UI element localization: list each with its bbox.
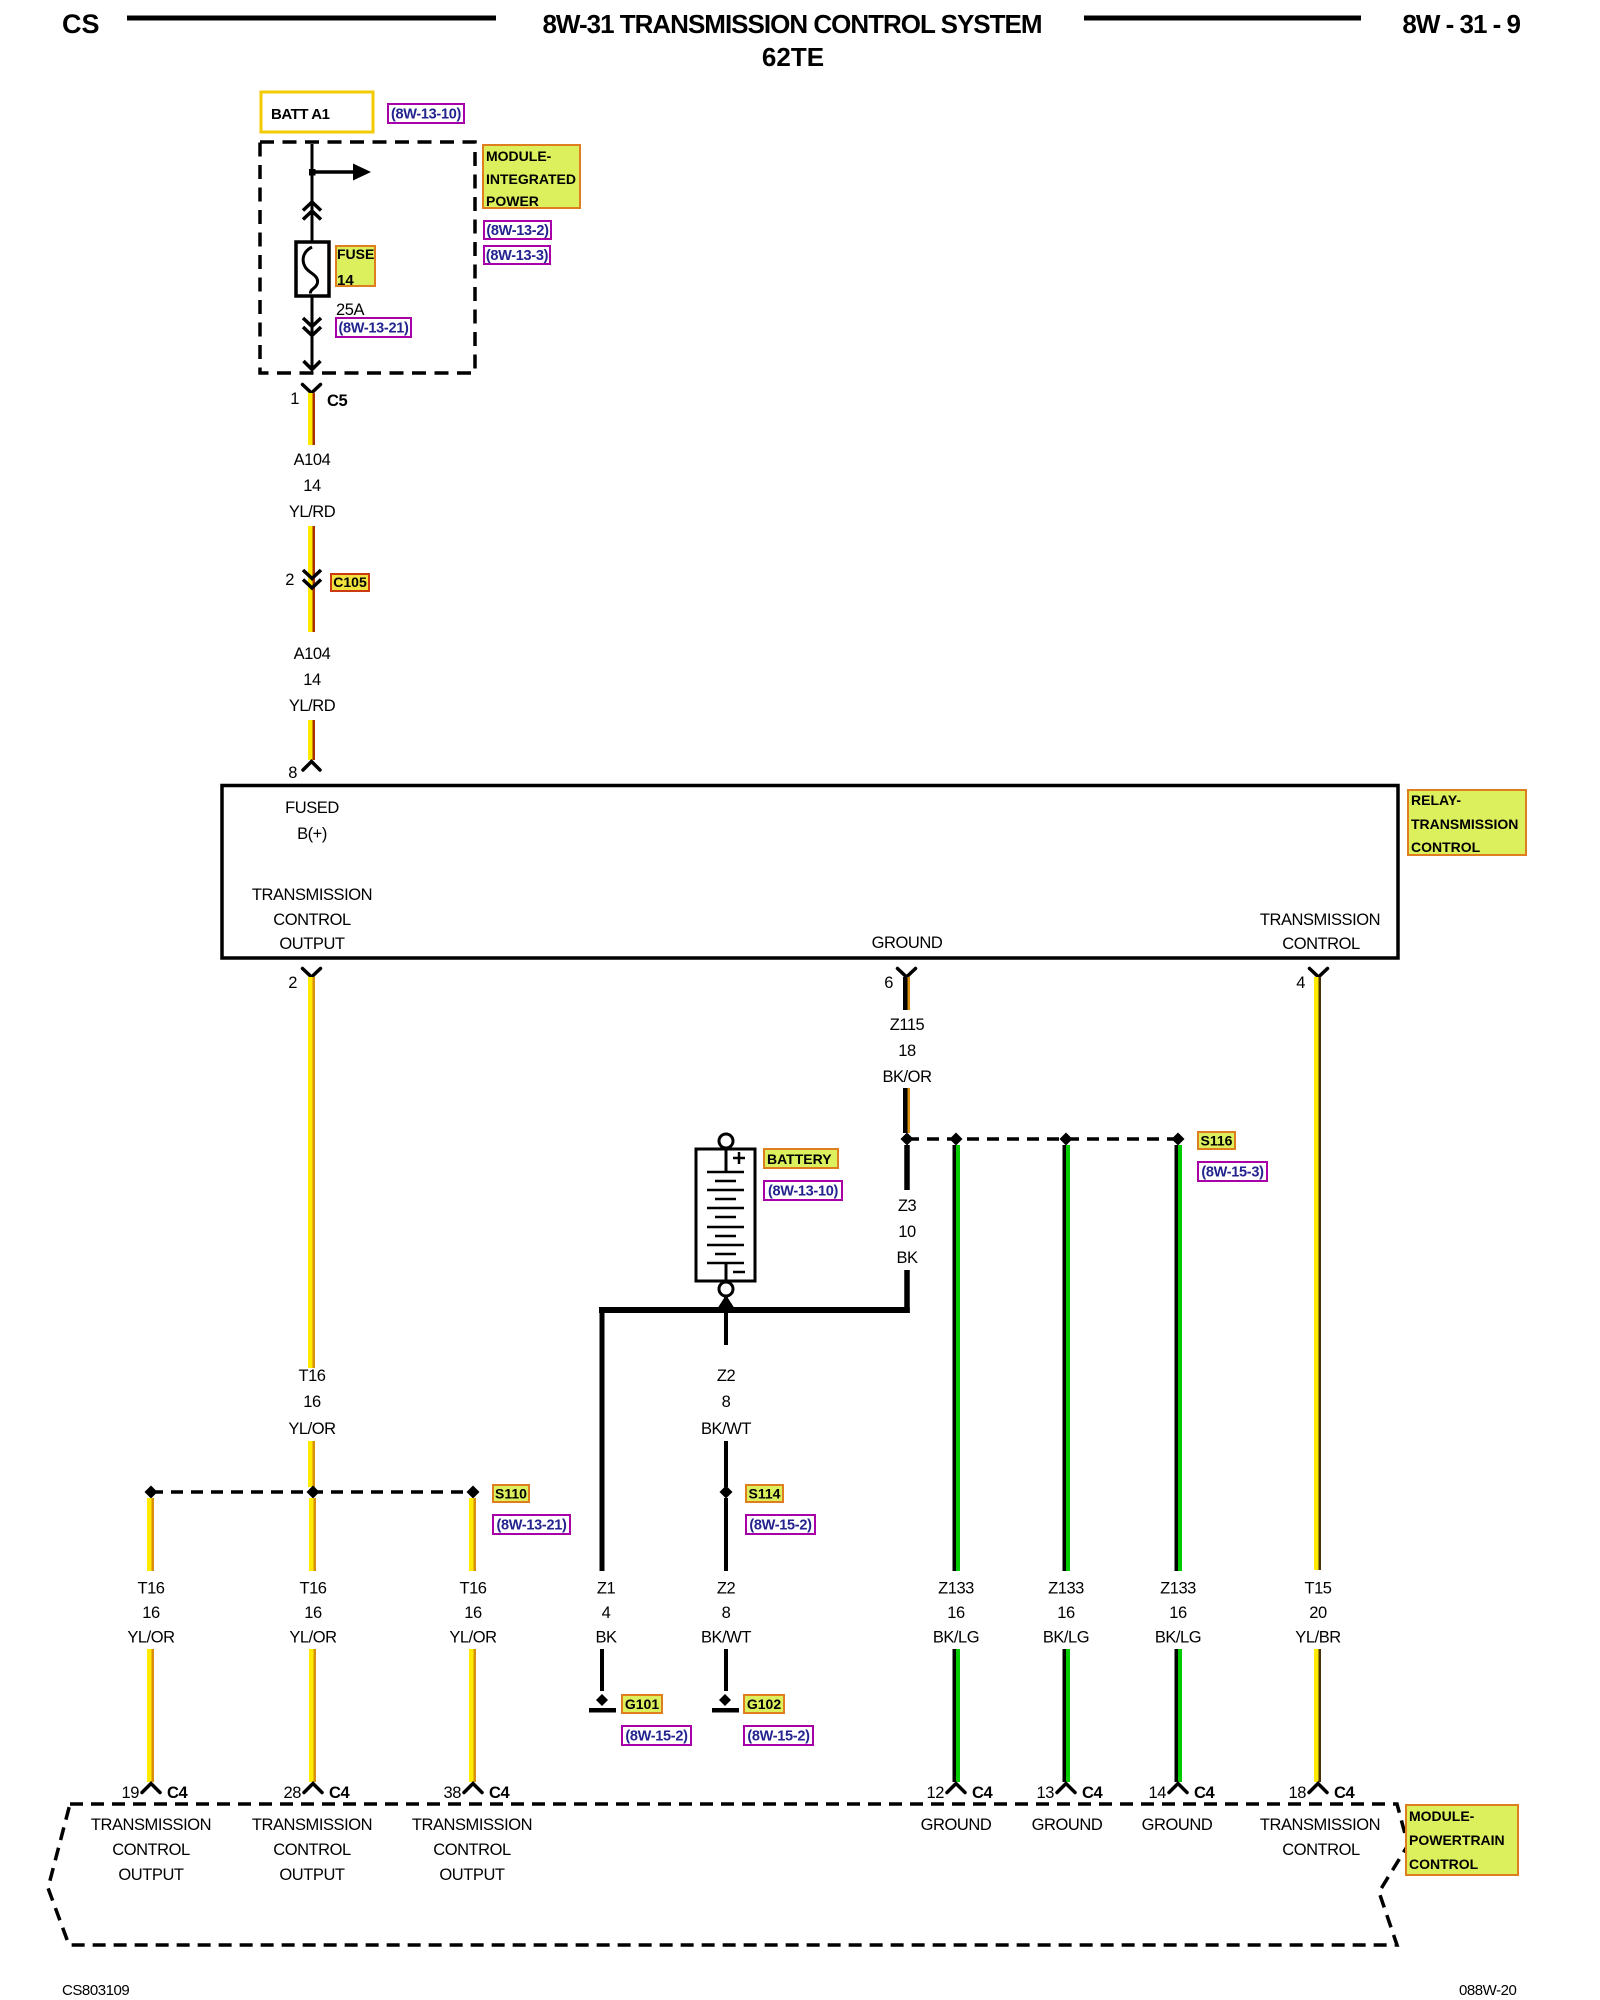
- svg-text:C4: C4: [1082, 1784, 1103, 1802]
- wire battery negative bus horizontal: [599, 1307, 910, 1313]
- svg-text:16: 16: [304, 1604, 322, 1622]
- svg-text:14: 14: [303, 671, 321, 689]
- svg-text:A104: A104: [294, 451, 331, 469]
- node S116 diamond 4: [1172, 1133, 1185, 1146]
- svg-text:C4: C4: [972, 1784, 993, 1802]
- wire T16 branch 1 lower: [147, 1649, 154, 1782]
- svg-text:BK/OR: BK/OR: [882, 1068, 932, 1086]
- connector C4 pin 28: [284, 1784, 351, 1803]
- label G102: [744, 1695, 784, 1713]
- wire label Z2 8 BK/WT lower: [701, 1580, 751, 1647]
- connector C4 pin 14: [1149, 1784, 1216, 1803]
- relay pin 4: [1296, 969, 1327, 993]
- link 8W-13-10 (top): [388, 104, 464, 123]
- node S116 diamond 2: [950, 1133, 963, 1146]
- link 8W-15-2 (S114): [746, 1515, 815, 1534]
- svg-text:YL/BR: YL/BR: [1295, 1629, 1341, 1647]
- svg-text:8: 8: [288, 764, 297, 782]
- svg-text:YL/OR: YL/OR: [449, 1629, 497, 1647]
- svg-text:C4: C4: [167, 1784, 188, 1802]
- wire T16 branch 2 upper: [309, 1498, 316, 1571]
- svg-text:(8W-13-21): (8W-13-21): [496, 1518, 567, 1534]
- module-powertrain control dashed outline: [48, 1804, 1408, 1945]
- link 8W-13-10 (battery): [764, 1181, 842, 1200]
- label MODULE-INTEGRATED POWER: [483, 145, 580, 209]
- svg-text:FUSED: FUSED: [285, 799, 339, 817]
- svg-text:TRANSMISSION: TRANSMISSION: [252, 886, 372, 904]
- fuse block BATT A1 box: [261, 92, 373, 132]
- svg-text:GROUND: GROUND: [872, 934, 943, 952]
- svg-text:G102: G102: [747, 1696, 781, 1712]
- label RELAY-TRANSMISSION CONTROL: [1408, 790, 1526, 855]
- wire T16 branch 3 upper: [469, 1498, 476, 1571]
- wire Z1 lower: [600, 1649, 604, 1691]
- header rule right: [1084, 16, 1361, 21]
- wire T16 branch 2 lower: [309, 1649, 316, 1782]
- wire T16 branch 1 upper: [147, 1498, 154, 1571]
- wire segment: [308, 526, 315, 632]
- wire label A104 14 YL/RD lower: [289, 645, 336, 715]
- svg-text:RELAY-: RELAY-: [1411, 792, 1461, 808]
- svg-text:16: 16: [1057, 1604, 1075, 1622]
- down chevrons (wire direction): [303, 318, 321, 327]
- svg-text:(8W-15-2): (8W-15-2): [749, 1518, 812, 1534]
- ground G102: [712, 1694, 739, 1713]
- module pin name TRANSMISSION CONTROL OUTPUT 2: [252, 1816, 372, 1884]
- node S110 diamond mid: [307, 1486, 320, 1499]
- connector C4 pin 18: [1289, 1784, 1356, 1803]
- wire Z3 lower: [904, 1270, 910, 1313]
- svg-text:4: 4: [1296, 974, 1305, 992]
- svg-text:OUTPUT: OUTPUT: [118, 1866, 184, 1884]
- svg-text:(8W-13-10): (8W-13-10): [391, 107, 462, 123]
- wire label Z1 4 BK: [595, 1580, 617, 1647]
- svg-text:20: 20: [1309, 1604, 1327, 1622]
- svg-text:62TE: 62TE: [762, 42, 824, 72]
- label C105: [331, 574, 369, 591]
- svg-text:T15: T15: [1304, 1580, 1331, 1598]
- svg-text:BK/WT: BK/WT: [701, 1420, 751, 1438]
- wire Z133 BK/LG branch 2 upper: [1063, 1145, 1071, 1571]
- relay pin 6: [884, 969, 915, 993]
- wire Z2 segment to S114: [724, 1441, 728, 1487]
- wire label Z115 18 BK/OR: [882, 1016, 932, 1086]
- svg-text:GROUND: GROUND: [1142, 1816, 1213, 1834]
- connector C5 pin 1: [290, 385, 347, 411]
- svg-text:BK: BK: [595, 1629, 617, 1647]
- wire battery negative lead with arrow: [715, 1295, 738, 1313]
- wire label T16 16 YL/OR branch 3: [449, 1580, 497, 1647]
- wire Z133 branch 3 lower: [1175, 1649, 1183, 1782]
- label BATTERY: [764, 1149, 838, 1168]
- wire Z2 upper below bus: [724, 1313, 728, 1345]
- svg-text:Z133: Z133: [1048, 1580, 1084, 1598]
- link 8W-13-21 (S110): [493, 1515, 570, 1534]
- svg-text:T16: T16: [459, 1580, 486, 1598]
- svg-text:BK/WT: BK/WT: [701, 1629, 751, 1647]
- wire segment into relay: [308, 720, 315, 760]
- svg-text:T16: T16: [299, 1580, 326, 1598]
- svg-text:BATT A1: BATT A1: [271, 106, 330, 123]
- wire label T16 16 YL/OR branch 2: [289, 1580, 337, 1647]
- svg-text:14: 14: [303, 477, 321, 495]
- link 8W-15-2 (G102): [744, 1726, 813, 1745]
- svg-text:12: 12: [927, 1784, 945, 1802]
- svg-text:S116: S116: [1201, 1133, 1233, 1149]
- svg-text:C4: C4: [1194, 1784, 1215, 1802]
- svg-text:CONTROL: CONTROL: [1411, 839, 1481, 855]
- svg-text:YL/RD: YL/RD: [289, 503, 336, 521]
- wire label Z133 16 BK/LG branch 3: [1155, 1580, 1201, 1647]
- svg-text:FUSE: FUSE: [337, 246, 374, 262]
- svg-text:POWERTRAIN: POWERTRAIN: [1409, 1832, 1505, 1848]
- node junction dot: [309, 169, 316, 176]
- svg-text:BK/LG: BK/LG: [1043, 1629, 1089, 1647]
- svg-text:18: 18: [1289, 1784, 1307, 1802]
- wire below fuse: [311, 295, 314, 368]
- svg-text:16: 16: [1169, 1604, 1187, 1622]
- svg-text:CONTROL: CONTROL: [112, 1841, 190, 1859]
- relay box (transmission control relay): [222, 786, 1398, 959]
- link 8W-13-21 (fuse): [336, 318, 411, 337]
- wire label T16 16 YL/OR branch 1: [127, 1580, 175, 1647]
- svg-text:Z133: Z133: [1160, 1580, 1196, 1598]
- svg-text:4: 4: [602, 1604, 611, 1622]
- link 8W-15-3: [1198, 1162, 1267, 1181]
- svg-text:YL/OR: YL/OR: [127, 1629, 175, 1647]
- svg-text:BK/LG: BK/LG: [1155, 1629, 1201, 1647]
- wire Z115 segment to splice: [903, 1088, 910, 1133]
- svg-text:S114: S114: [749, 1486, 781, 1502]
- svg-text:(8W-13-2): (8W-13-2): [486, 223, 549, 239]
- svg-text:YL/OR: YL/OR: [289, 1629, 337, 1647]
- wire T16 YL/OR from relay pin 2: [308, 977, 315, 1368]
- svg-text:Z3: Z3: [898, 1197, 917, 1215]
- svg-text:BK: BK: [896, 1249, 918, 1267]
- wire Z133 BK/LG branch 3 upper: [1175, 1145, 1183, 1571]
- svg-text:OUTPUT: OUTPUT: [279, 935, 345, 953]
- module pin name TRANSMISSION CONTROL OUTPUT 3: [412, 1816, 532, 1884]
- label S114: [746, 1485, 783, 1502]
- wire Z133 branch 2 lower: [1063, 1649, 1071, 1782]
- wire A104 14 YL/RD upper: [308, 393, 315, 445]
- wire T15 lower: [1314, 1649, 1321, 1782]
- svg-text:8: 8: [722, 1393, 731, 1411]
- splice S110 bus: [151, 1490, 473, 1494]
- svg-text:(8W-13-3): (8W-13-3): [486, 248, 549, 264]
- connector C4 pin 19: [122, 1784, 189, 1803]
- svg-text:(8W-15-2): (8W-15-2): [747, 1729, 810, 1745]
- svg-text:BK/LG: BK/LG: [933, 1629, 979, 1647]
- svg-text:Z115: Z115: [890, 1016, 925, 1034]
- relay pin 2: [288, 969, 320, 993]
- battery B1: [696, 1134, 755, 1296]
- connector C105 pin 2: [285, 570, 321, 589]
- svg-text:TRANSMISSION: TRANSMISSION: [1260, 1816, 1380, 1834]
- svg-text:YL/RD: YL/RD: [289, 697, 336, 715]
- wire label Z3 10 BK: [896, 1197, 918, 1267]
- label MODULE-POWERTRAIN CONTROL: [1406, 1805, 1518, 1875]
- svg-text:14: 14: [1149, 1784, 1167, 1802]
- svg-text:C4: C4: [329, 1784, 350, 1802]
- wire label A104 14 YL/RD: [289, 451, 336, 521]
- svg-text:CS: CS: [62, 9, 100, 39]
- svg-text:8: 8: [722, 1604, 731, 1622]
- svg-text:19: 19: [122, 1784, 140, 1802]
- svg-text:CONTROL: CONTROL: [433, 1841, 511, 1859]
- svg-text:C4: C4: [489, 1784, 510, 1802]
- svg-text:POWER: POWER: [486, 193, 539, 209]
- svg-text:G101: G101: [625, 1696, 659, 1712]
- relay pin name TRANSMISSION CONTROL: [1260, 911, 1380, 953]
- wire label Z133 16 BK/LG branch 2: [1043, 1580, 1089, 1647]
- wire feed vertical inside PDC: [311, 144, 314, 246]
- wire branch arrow to other circuits: [312, 170, 353, 174]
- label G101: [622, 1695, 662, 1713]
- svg-text:GROUND: GROUND: [921, 1816, 992, 1834]
- node S116 diamond 3: [1060, 1133, 1073, 1146]
- svg-text:CONTROL: CONTROL: [1282, 1841, 1360, 1859]
- svg-text:8W - 31 - 9: 8W - 31 - 9: [1402, 9, 1520, 39]
- svg-text:TRANSMISSION: TRANSMISSION: [412, 1816, 532, 1834]
- connector C4 pin 12: [927, 1784, 994, 1803]
- svg-text:C4: C4: [1334, 1784, 1355, 1802]
- wire T15 YL/BR from relay pin 4: [1314, 977, 1321, 1570]
- wire Z133 branch 1 lower: [953, 1649, 961, 1782]
- link 8W-15-2 (G101): [622, 1726, 691, 1745]
- relay pin name TRANSMISSION CONTROL OUTPUT: [252, 886, 372, 953]
- wire T16 branch 3 lower: [469, 1649, 476, 1782]
- svg-text:MODULE-: MODULE-: [1409, 1808, 1475, 1824]
- wire label Z2 8 BK/WT upper: [701, 1367, 751, 1438]
- relay pin 8: [288, 762, 320, 783]
- svg-text:38: 38: [444, 1784, 462, 1802]
- svg-text:(8W-13-10): (8W-13-10): [768, 1184, 839, 1200]
- svg-text:16: 16: [464, 1604, 482, 1622]
- fuse F14 symbol: [296, 242, 329, 296]
- svg-text:(8W-15-2): (8W-15-2): [625, 1729, 688, 1745]
- svg-text:CONTROL: CONTROL: [1409, 1856, 1479, 1872]
- wire label Z133 16 BK/LG branch 1: [933, 1580, 979, 1647]
- svg-text:Z133: Z133: [938, 1580, 974, 1598]
- svg-text:10: 10: [898, 1223, 916, 1241]
- svg-text:2: 2: [288, 974, 297, 992]
- wire Z3 upper: [904, 1145, 910, 1190]
- svg-text:OUTPUT: OUTPUT: [279, 1866, 345, 1884]
- label S110: [493, 1485, 529, 1502]
- svg-text:B(+): B(+): [297, 825, 327, 843]
- node S114 diamond: [720, 1486, 733, 1499]
- module pin name TRANSMISSION CONTROL OUTPUT 1: [91, 1816, 211, 1884]
- up chevrons (wire direction): [303, 202, 321, 211]
- svg-text:088W-20: 088W-20: [1459, 1982, 1517, 1999]
- relay pin name FUSED B(+): [285, 799, 339, 843]
- wire label T16 16 YL/OR: [288, 1367, 336, 1438]
- wire label T15 20 YL/BR: [1295, 1580, 1341, 1647]
- link 8W-13-3: [484, 246, 550, 264]
- svg-text:TRANSMISSION: TRANSMISSION: [91, 1816, 211, 1834]
- svg-text:S110: S110: [495, 1486, 527, 1502]
- svg-text:25A: 25A: [336, 301, 364, 319]
- link 8W-13-2: [484, 221, 551, 239]
- label FUSE 14: [336, 246, 375, 289]
- svg-text:GROUND: GROUND: [1032, 1816, 1103, 1834]
- svg-text:MODULE-: MODULE-: [486, 148, 552, 164]
- connector C4 pin 13: [1037, 1784, 1104, 1803]
- wire segment to S110: [308, 1441, 315, 1487]
- svg-text:(8W-15-3): (8W-15-3): [1201, 1165, 1264, 1181]
- node S110 diamond right: [467, 1486, 480, 1499]
- svg-text:18: 18: [898, 1042, 916, 1060]
- connector C4 pin 38: [444, 1784, 511, 1803]
- splice S116 bus: [907, 1137, 1178, 1141]
- power distribution center dashed box: [260, 142, 475, 373]
- svg-text:13: 13: [1037, 1784, 1055, 1802]
- svg-text:T16: T16: [298, 1367, 325, 1385]
- wire Z2 below S114: [724, 1498, 728, 1571]
- svg-text:CS803109: CS803109: [62, 1982, 129, 1999]
- wire Z1 from bus to ground: [600, 1307, 605, 1571]
- node S116 diamond 1: [901, 1133, 914, 1146]
- svg-text:16: 16: [303, 1393, 321, 1411]
- svg-text:14: 14: [337, 272, 354, 289]
- svg-text:OUTPUT: OUTPUT: [439, 1866, 505, 1884]
- svg-text:TRANSMISSION: TRANSMISSION: [1411, 816, 1518, 832]
- svg-text:28: 28: [284, 1784, 302, 1802]
- svg-text:16: 16: [947, 1604, 965, 1622]
- svg-text:8W-31 TRANSMISSION CONTROL SYS: 8W-31 TRANSMISSION CONTROL SYSTEM: [542, 9, 1041, 39]
- svg-text:(8W-13-21): (8W-13-21): [338, 321, 409, 337]
- wire Z115 BK/OR from relay pin 6: [903, 977, 910, 1010]
- header rule left: [127, 16, 496, 21]
- module pin name TRANSMISSION CONTROL: [1260, 1816, 1380, 1859]
- svg-text:Z2: Z2: [717, 1580, 736, 1598]
- svg-text:YL/OR: YL/OR: [288, 1420, 336, 1438]
- svg-text:TRANSMISSION: TRANSMISSION: [1260, 911, 1380, 929]
- svg-text:A104: A104: [294, 645, 331, 663]
- svg-text:1: 1: [290, 390, 299, 408]
- node S110 diamond left: [145, 1486, 158, 1499]
- svg-text:Z2: Z2: [717, 1367, 736, 1385]
- svg-text:C105: C105: [333, 574, 367, 590]
- svg-text:C5: C5: [327, 392, 347, 410]
- label S116: [1198, 1132, 1235, 1149]
- svg-text:6: 6: [884, 974, 893, 992]
- svg-text:CONTROL: CONTROL: [273, 911, 351, 929]
- arrow exiting PDC: [304, 361, 321, 370]
- ground G101: [589, 1694, 616, 1713]
- svg-text:CONTROL: CONTROL: [273, 1841, 351, 1859]
- svg-text:2: 2: [285, 571, 294, 589]
- svg-text:INTEGRATED: INTEGRATED: [486, 171, 576, 187]
- svg-text:CONTROL: CONTROL: [1282, 935, 1360, 953]
- wire Z2 to ground G102: [724, 1649, 728, 1691]
- svg-text:BATTERY: BATTERY: [767, 1151, 832, 1167]
- svg-text:Z1: Z1: [597, 1580, 616, 1598]
- svg-text:16: 16: [142, 1604, 160, 1622]
- svg-text:T16: T16: [137, 1580, 164, 1598]
- wire Z133 BK/LG branch 1 upper: [953, 1145, 961, 1571]
- svg-text:TRANSMISSION: TRANSMISSION: [252, 1816, 372, 1834]
